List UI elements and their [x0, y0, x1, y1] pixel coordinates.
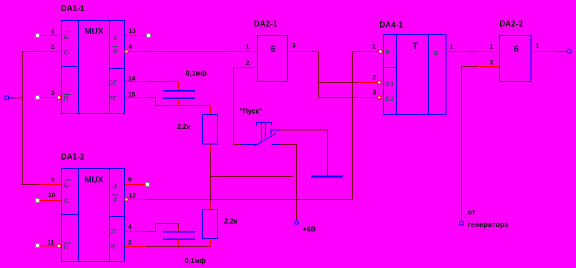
svg-text:DA1-2: DA1-2 [61, 153, 85, 162]
svg-text:4: 4 [128, 224, 132, 231]
pad at DA1-1 pin 13 [147, 34, 151, 38]
svg-text:DA4-1: DA4-1 [380, 21, 404, 30]
wire net pin2b maroon [146, 246, 210, 247]
svg-text:СГ: СГ [109, 80, 118, 87]
wire DA2-1 pin1 lead red [233, 51, 258, 52]
svg-text:Ь: Ь [64, 182, 69, 189]
wire ground stem blue [327, 168, 328, 176]
svg-text:6: 6 [514, 44, 519, 54]
wire pin15 lead red [125, 97, 147, 98]
inversion bubble DA4-1 pin1 [379, 50, 383, 54]
pad at DA1-1 pin 1 [36, 34, 40, 38]
svg-text:2: 2 [51, 44, 55, 51]
wire button net vertical maroon [233, 67, 234, 145]
wire button upper net maroon [281, 130, 328, 131]
svg-text:1: 1 [450, 44, 454, 51]
wire ground branch maroon [210, 176, 293, 177]
chip DA1-2 outline [62, 169, 125, 262]
svg-text:3: 3 [373, 90, 377, 97]
capacitor C1 bottom plate [163, 97, 195, 99]
svg-text:С: С [64, 50, 69, 57]
svg-text:6: 6 [271, 44, 276, 54]
inversion bubble pin 4 [125, 50, 128, 53]
svg-text:2: 2 [128, 240, 132, 247]
wire C2 top lead maroon [178, 223, 179, 229]
inversion bubble DA4-1 pin2 [378, 81, 381, 84]
inversion bubble pin 12 [125, 198, 128, 201]
wire pin12 lead red [128, 199, 146, 200]
svg-text:"Пуск": "Пуск" [240, 109, 263, 116]
wire generator lead blue [461, 218, 462, 221]
chip DA1-1 pin P-bar label [64, 94, 71, 95]
svg-text:10: 10 [48, 192, 56, 199]
pad at DA1-2 pin 9 [146, 183, 150, 187]
wire net S1 horiz maroon [318, 82, 359, 83]
pad at DA1-2 pin 10 [36, 199, 40, 203]
svg-text:+6В: +6В [303, 227, 316, 234]
pad at DA1-1 pin 3 [36, 96, 40, 100]
svg-text:14: 14 [128, 76, 136, 83]
wire pin4b lead red [125, 231, 147, 232]
svg-text:3: 3 [292, 43, 296, 50]
wire DA2-2 pin1 lead red [476, 51, 500, 52]
svg-text:0,1мф: 0,1мф [185, 258, 206, 265]
wire pin10 lead [40, 200, 61, 201]
wire DA4-1 pin1 lead red [360, 51, 379, 52]
push button contact stub vertical blue [271, 130, 272, 135]
wire terminal net maroon [14, 98, 22, 99]
wire R1-R2 vertical maroon [210, 152, 211, 204]
wire horiz maroon [155, 223, 179, 224]
inversion bubble pin 3 [57, 96, 61, 100]
svg-text:Р: Р [386, 50, 391, 57]
capacitor C2 bottom plate [163, 239, 195, 241]
op-amp U1 / chip DA1-1 outline [62, 21, 125, 114]
svg-text:Ь: Ь [64, 34, 69, 41]
wire capacitor C1 top lead red [178, 81, 179, 91]
svg-text:11: 11 [48, 240, 55, 247]
wire pin2b lead red [125, 246, 147, 247]
wire button net horiz maroon [233, 144, 241, 145]
resistor R2 [203, 210, 218, 239]
wire DA4-1 pin1 corner maroon [352, 51, 360, 52]
svg-text:15: 15 [128, 92, 136, 99]
svg-text:13: 13 [129, 28, 137, 35]
chip DA2-2 outline [500, 36, 532, 82]
svg-text:2.2к: 2.2к [177, 124, 191, 131]
svg-text:1: 1 [372, 44, 376, 51]
wire pin4 lead red [128, 51, 147, 52]
svg-text:2: 2 [246, 60, 250, 67]
wire net vertical up to DA4-1 pin1 maroon [352, 51, 353, 200]
svg-text:9: 9 [128, 177, 132, 184]
inversion bubble pin 11 [57, 244, 61, 248]
wire net generator vertical maroon [461, 66, 462, 218]
wire terminal lead blue [9, 98, 14, 99]
wire R1 bottom lead red [210, 145, 211, 152]
wire DA4-1 output lead red [446, 51, 468, 52]
wire pin13 lead [125, 35, 147, 36]
svg-text:DA2-1: DA2-1 [254, 20, 278, 29]
+6V terminal circle [295, 221, 299, 225]
svg-text:П: П [64, 245, 69, 252]
svg-text:от: от [468, 210, 476, 217]
wire DA2-2 pin3 lead red [477, 66, 500, 67]
svg-text:d: d [113, 48, 117, 55]
push button right upper contact blue [271, 130, 281, 131]
svg-text:S2: S2 [385, 96, 395, 103]
svg-text:РГ: РГ [109, 95, 117, 102]
wire net S2 horiz maroon [318, 97, 359, 98]
wire net generator horiz maroon [461, 66, 477, 67]
wire net pin15 maroon [146, 97, 156, 98]
svg-text:2.2к: 2.2к [224, 219, 238, 226]
wire output net maroon [554, 51, 567, 52]
wire horizontal to R1 maroon [155, 105, 210, 106]
chip DA2-1 outline [258, 36, 288, 82]
svg-text:СГ: СГ [109, 228, 118, 235]
wire DA4-1 pin2 lead red [359, 82, 378, 83]
svg-text:2: 2 [373, 75, 377, 82]
wire R2 top lead red [210, 204, 211, 210]
push button moving contact diagonal [255, 134, 276, 146]
wire net pin4b maroon [146, 231, 156, 232]
svg-text:T: T [413, 41, 419, 51]
chip DA1-2 pin d-bar label [113, 195, 119, 196]
svg-text:1: 1 [490, 44, 494, 51]
svg-text:РГ: РГ [109, 244, 117, 251]
svg-text:d: d [113, 184, 117, 191]
svg-text:генератора: генератора [468, 222, 509, 229]
generator terminal square [459, 221, 463, 225]
wire net pin4 to DA2-1 maroon [147, 51, 233, 52]
wire pin14 lead red [125, 81, 147, 82]
push button Pusk cap bracket [257, 123, 272, 143]
push button right lower contact blue [272, 144, 281, 145]
wire pin11 lead [40, 246, 57, 247]
chip DA1-1 pin d-bar label [113, 46, 119, 47]
chip DA4-1 outline [384, 35, 447, 115]
svg-text:3: 3 [490, 60, 494, 67]
output terminal circle [567, 49, 571, 53]
wire pin9 lead [125, 184, 146, 185]
svg-text:1: 1 [536, 43, 540, 50]
wire C2 bottom lead red [178, 240, 179, 246]
capacitor C2 top plate [163, 231, 195, 233]
svg-text:1: 1 [51, 29, 55, 36]
svg-text:5: 5 [51, 177, 55, 184]
wire riser up maroon [155, 223, 156, 232]
svg-text:3: 3 [51, 90, 55, 97]
wire net horiz pin5 maroon [22, 184, 39, 185]
wire net maroon to corner [312, 51, 319, 52]
wire DA2-2 output lead red [532, 51, 555, 52]
wire R1 top lead red [210, 105, 211, 114]
wire pin2 lead red [39, 51, 61, 52]
svg-text:d: d [434, 50, 438, 57]
svg-text:0,1мф: 0,1мф [186, 71, 207, 78]
capacitor C1 top plate [163, 90, 195, 92]
wire DA2-1 pin2 lead red [233, 67, 258, 68]
wire DA1-2 pin5 lead red [39, 184, 61, 185]
svg-text:4: 4 [129, 44, 133, 51]
chip DA1-2 pin D-bar label [65, 180, 71, 181]
input terminal square [5, 96, 9, 100]
wire C1 bottom lead red [178, 99, 179, 106]
wire +6V vertical maroon [296, 144, 297, 220]
wire button lower net maroon [281, 144, 297, 145]
svg-text:MUX: MUX [85, 26, 104, 36]
wire DA2-1 pin3 lead red [288, 51, 312, 52]
svg-text:S1: S1 [385, 81, 395, 88]
wire button left contact blue [241, 144, 258, 145]
wire R2 bottom lead red [210, 239, 211, 247]
wire pin3 lead [40, 97, 57, 98]
svg-text:DA2-2: DA2-2 [500, 20, 524, 29]
pad at DA1-2 pin 11 [36, 244, 40, 248]
svg-text:MUX: MUX [85, 175, 104, 185]
wire net maroon [468, 51, 476, 52]
ground bar [311, 176, 343, 178]
svg-text:С: С [64, 198, 69, 205]
wire riser maroon [155, 97, 156, 106]
chip DA1-1 pin D-bar label [65, 31, 71, 32]
wire pin1 lead [40, 35, 61, 36]
chip DA1-2 pin P-bar label [64, 243, 71, 244]
wire ground stem maroon [327, 130, 328, 168]
inversion bubble DA4-1 pin3 [378, 96, 381, 99]
wire net maroon to pin2 [22, 51, 39, 52]
svg-text:П: П [64, 96, 69, 103]
svg-text:d: d [113, 35, 117, 42]
svg-text:12: 12 [129, 193, 137, 200]
wire net vertical to pin5 maroon [22, 51, 23, 185]
svg-text:DA1-1: DA1-1 [61, 4, 85, 13]
resistor R1 [203, 115, 218, 145]
wire net pin12 to DA4-1 maroon [146, 199, 353, 200]
svg-text:1: 1 [246, 44, 250, 51]
wire net pin14 maroon [146, 81, 179, 82]
wire C2 top lead red [178, 229, 179, 232]
wire DA4-1 pin3 lead red [359, 97, 378, 98]
svg-text:d: d [113, 196, 117, 203]
wire net vertical maroon [318, 51, 319, 98]
